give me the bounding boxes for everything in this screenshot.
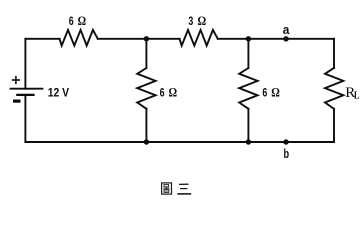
svg-text:6: 6 xyxy=(262,86,267,100)
wire top-right xyxy=(218,38,334,40)
battery plus sign xyxy=(12,76,20,84)
svg-text:12 V: 12 V xyxy=(48,86,70,100)
svg-text:a: a xyxy=(283,23,291,37)
battery V1 negative plate xyxy=(16,94,34,96)
svg-text:6: 6 xyxy=(160,86,165,100)
wire top-middle xyxy=(98,38,180,40)
node a dot xyxy=(283,36,288,41)
wire bottom xyxy=(25,141,334,143)
wire left rail top xyxy=(24,39,26,89)
svg-text:Ω: Ω xyxy=(271,86,280,100)
svg-text:L: L xyxy=(354,89,360,101)
battery V1 positive plate xyxy=(10,88,44,90)
wire right rail bottom xyxy=(333,109,335,142)
wire vertical branch 1 top stub xyxy=(145,39,147,68)
wire vertical branch 1 bottom stub xyxy=(145,109,147,142)
junction dot bottom node 2 xyxy=(246,139,251,144)
svg-text:3: 3 xyxy=(188,14,193,28)
caption figure character tu (box) xyxy=(162,183,172,194)
svg-text:6: 6 xyxy=(69,14,74,28)
svg-text:Ω: Ω xyxy=(78,14,87,28)
resistor 6ohm vertical 1 zigzag xyxy=(137,68,155,109)
wire vertical branch 2 bottom stub xyxy=(247,109,249,142)
junction dot top node 1 xyxy=(144,36,149,41)
caption figure character three xyxy=(177,184,191,194)
wire vertical branch 2 top stub xyxy=(247,39,249,68)
node b dot xyxy=(283,139,288,144)
battery minus sign xyxy=(13,99,21,102)
svg-text:b: b xyxy=(284,147,290,161)
wire right rail top stub xyxy=(333,39,335,68)
svg-text:Ω: Ω xyxy=(198,14,207,28)
wire left rail bottom xyxy=(24,95,26,142)
wire top-left xyxy=(25,38,59,40)
resistor 3ohm zigzag xyxy=(180,30,218,46)
resistor RL zigzag xyxy=(325,68,343,109)
resistor R 6ohm top-left zigzag xyxy=(60,30,98,46)
junction dot bottom node 1 xyxy=(144,139,149,144)
svg-text:Ω: Ω xyxy=(169,86,178,100)
junction dot top node 2 xyxy=(246,36,251,41)
resistor 6ohm vertical 2 zigzag xyxy=(239,68,257,109)
